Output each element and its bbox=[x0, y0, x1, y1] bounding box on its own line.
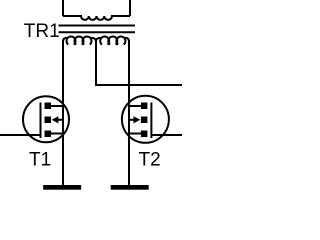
transformer TR1 secondary right half winding bbox=[96, 36, 129, 44]
svg-text:T1: T1 bbox=[29, 149, 51, 170]
transformer TR1 primary winding bbox=[63, 16, 130, 20]
wire primary right lead bbox=[129, 0, 131, 16]
transistor T2 arrow shaft bbox=[129, 119, 136, 121]
wire secondary right end to T2 drain and source to ground bbox=[128, 42, 130, 186]
transistor T1 bottom stub bbox=[51, 133, 63, 135]
ground T2 bbox=[111, 185, 149, 190]
wire gate lead T1 from left edge bbox=[0, 134, 41, 136]
transistor T2 bbox=[122, 96, 182, 143]
transformer TR1 core line upper bbox=[59, 25, 136, 27]
transistor T1 gate electrode bbox=[40, 103, 42, 139]
transistor T2 bottom stub bbox=[129, 133, 141, 135]
transistor T2 channel squares bbox=[141, 103, 148, 110]
transistor T2 body circle bbox=[122, 96, 169, 143]
wire gate lead T2 to right edge bbox=[151, 134, 182, 136]
transistor T1 arrow shaft bbox=[57, 119, 64, 121]
wire primary left lead bbox=[62, 0, 64, 16]
transistor T2 gate electrode bbox=[150, 103, 152, 139]
transistor T2 bulk arrowhead bbox=[134, 116, 141, 123]
transistor T1 body circle bbox=[23, 96, 69, 142]
transistor T1 channel squares bbox=[45, 103, 52, 110]
transistor T1 bbox=[0, 96, 69, 142]
svg-text:T2: T2 bbox=[139, 149, 161, 170]
wire center tap down bbox=[95, 42, 97, 87]
transistor T1 top stub bbox=[51, 105, 63, 107]
transistor T1 bulk arrowhead bbox=[52, 116, 59, 123]
transistor T2 top stub bbox=[129, 105, 141, 107]
transformer TR1 bbox=[59, 0, 136, 45]
wire center tap output to right edge bbox=[95, 84, 182, 86]
transformer TR1 core line lower bbox=[59, 31, 136, 33]
svg-text:TR1: TR1 bbox=[24, 21, 60, 42]
transformer TR1 secondary left half winding bbox=[63, 36, 96, 44]
wire secondary left end to T1 drain and source to ground bbox=[62, 42, 64, 186]
ground T1 bbox=[43, 185, 81, 190]
